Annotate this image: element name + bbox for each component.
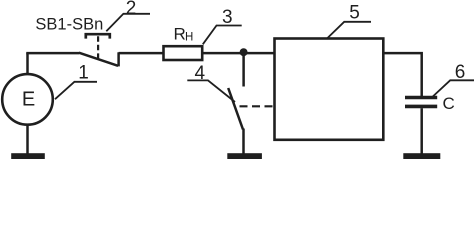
- callout 5 leader: [327, 22, 371, 39]
- svg-text:3: 3: [222, 7, 233, 28]
- svg-text:6: 6: [455, 62, 466, 83]
- wire: source bottom to ground: [26, 125, 29, 155]
- callout 6 leader: [433, 80, 474, 96]
- svg-text:R: R: [174, 25, 186, 44]
- switch SB1-SBn blade: [79, 53, 118, 66]
- switch 4 linkage (dashed): [240, 105, 274, 107]
- pushbutton linkage (dashed): [97, 36, 99, 58]
- pushbutton cap: [86, 34, 110, 38]
- wire: resistor to box: [202, 52, 275, 55]
- svg-text:SB1-SBn: SB1-SBn: [35, 16, 103, 34]
- resistor RH: [164, 46, 203, 60]
- wire: junction stub down: [242, 52, 245, 86]
- block unit 5: [275, 39, 384, 140]
- svg-text:C: C: [443, 94, 455, 113]
- callout 3 leader: [203, 26, 242, 45]
- svg-text:2: 2: [126, 0, 137, 19]
- junction node: [240, 48, 248, 56]
- svg-text:1: 1: [78, 62, 89, 83]
- callout 1 leader: [55, 82, 97, 99]
- voltage source E: [2, 74, 53, 125]
- capacitor C bottom plate: [405, 105, 437, 109]
- callout 2 leader: [106, 14, 150, 31]
- callout 4 leader: [187, 80, 235, 102]
- ground (source): [11, 153, 45, 159]
- ground (capacitor): [403, 153, 440, 159]
- wire: switch 4 to ground: [242, 129, 245, 155]
- wire: source top vertical: [26, 53, 29, 74]
- wire: box to capacitor top: [383, 53, 421, 96]
- wire: capacitor to ground: [420, 108, 423, 154]
- switch SB1-SBn right post: [117, 52, 120, 66]
- wire: switch to resistor: [119, 52, 164, 55]
- switch 4 blade: [228, 88, 243, 130]
- svg-text:4: 4: [195, 63, 206, 84]
- wire: top horizontal to switch SB: [26, 52, 79, 55]
- capacitor C top plate: [405, 96, 437, 100]
- ground (switch 4): [227, 153, 262, 159]
- svg-text:H: H: [185, 32, 193, 44]
- svg-text:E: E: [22, 88, 35, 110]
- svg-text:5: 5: [349, 3, 360, 24]
